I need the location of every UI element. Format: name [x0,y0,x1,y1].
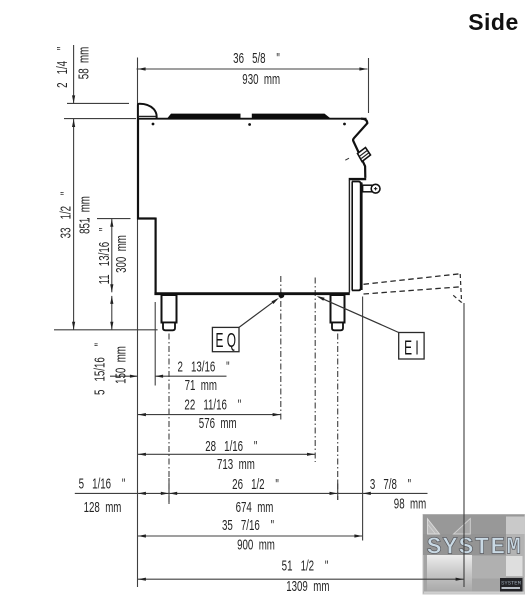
svg-text:851 mm: 851 mm [77,196,93,234]
svg-text:28 1/16 ": 28 1/16 " [205,438,257,454]
svg-text:576 mm: 576 mm [199,415,237,431]
svg-text:150 mm: 150 mm [113,346,129,384]
svg-text:36 5/8 ": 36 5/8 " [233,50,280,66]
svg-text:26 1/2 ": 26 1/2 " [232,476,279,492]
svg-text:900 mm: 900 mm [237,537,275,553]
svg-text:E I: E I [404,336,419,359]
svg-text:Side: Side [468,9,519,35]
svg-text:SYSTEM: SYSTEM [427,535,522,562]
svg-text:11 13/16 ": 11 13/16 " [96,228,112,285]
svg-text:5 15/16 ": 5 15/16 " [92,343,108,395]
svg-text:33 1/2 ": 33 1/2 " [58,192,74,239]
svg-text:SYSTEM: SYSTEM [501,580,521,587]
svg-text:71 mm: 71 mm [185,377,217,393]
svg-text:1309 mm: 1309 mm [286,578,329,594]
svg-text:58 mm: 58 mm [76,47,92,79]
svg-text:35 7/16 ": 35 7/16 " [222,517,274,533]
svg-text:E Q: E Q [215,329,235,352]
svg-text:674 mm: 674 mm [236,499,274,515]
svg-text:930 mm: 930 mm [242,71,280,87]
svg-text:2 13/16 ": 2 13/16 " [177,359,229,375]
svg-text:51 1/2 ": 51 1/2 " [282,558,329,574]
svg-text:713 mm: 713 mm [217,456,255,472]
svg-text:2 1/4 ": 2 1/4 " [54,47,70,88]
svg-text:300 mm: 300 mm [113,235,129,273]
svg-text:3 7/8 ": 3 7/8 " [370,476,411,492]
svg-text:98 mm: 98 mm [394,496,426,512]
svg-text:5 1/16 ": 5 1/16 " [79,476,126,492]
svg-text:128 mm: 128 mm [84,499,122,515]
svg-text:22 11/16 ": 22 11/16 " [184,397,241,413]
